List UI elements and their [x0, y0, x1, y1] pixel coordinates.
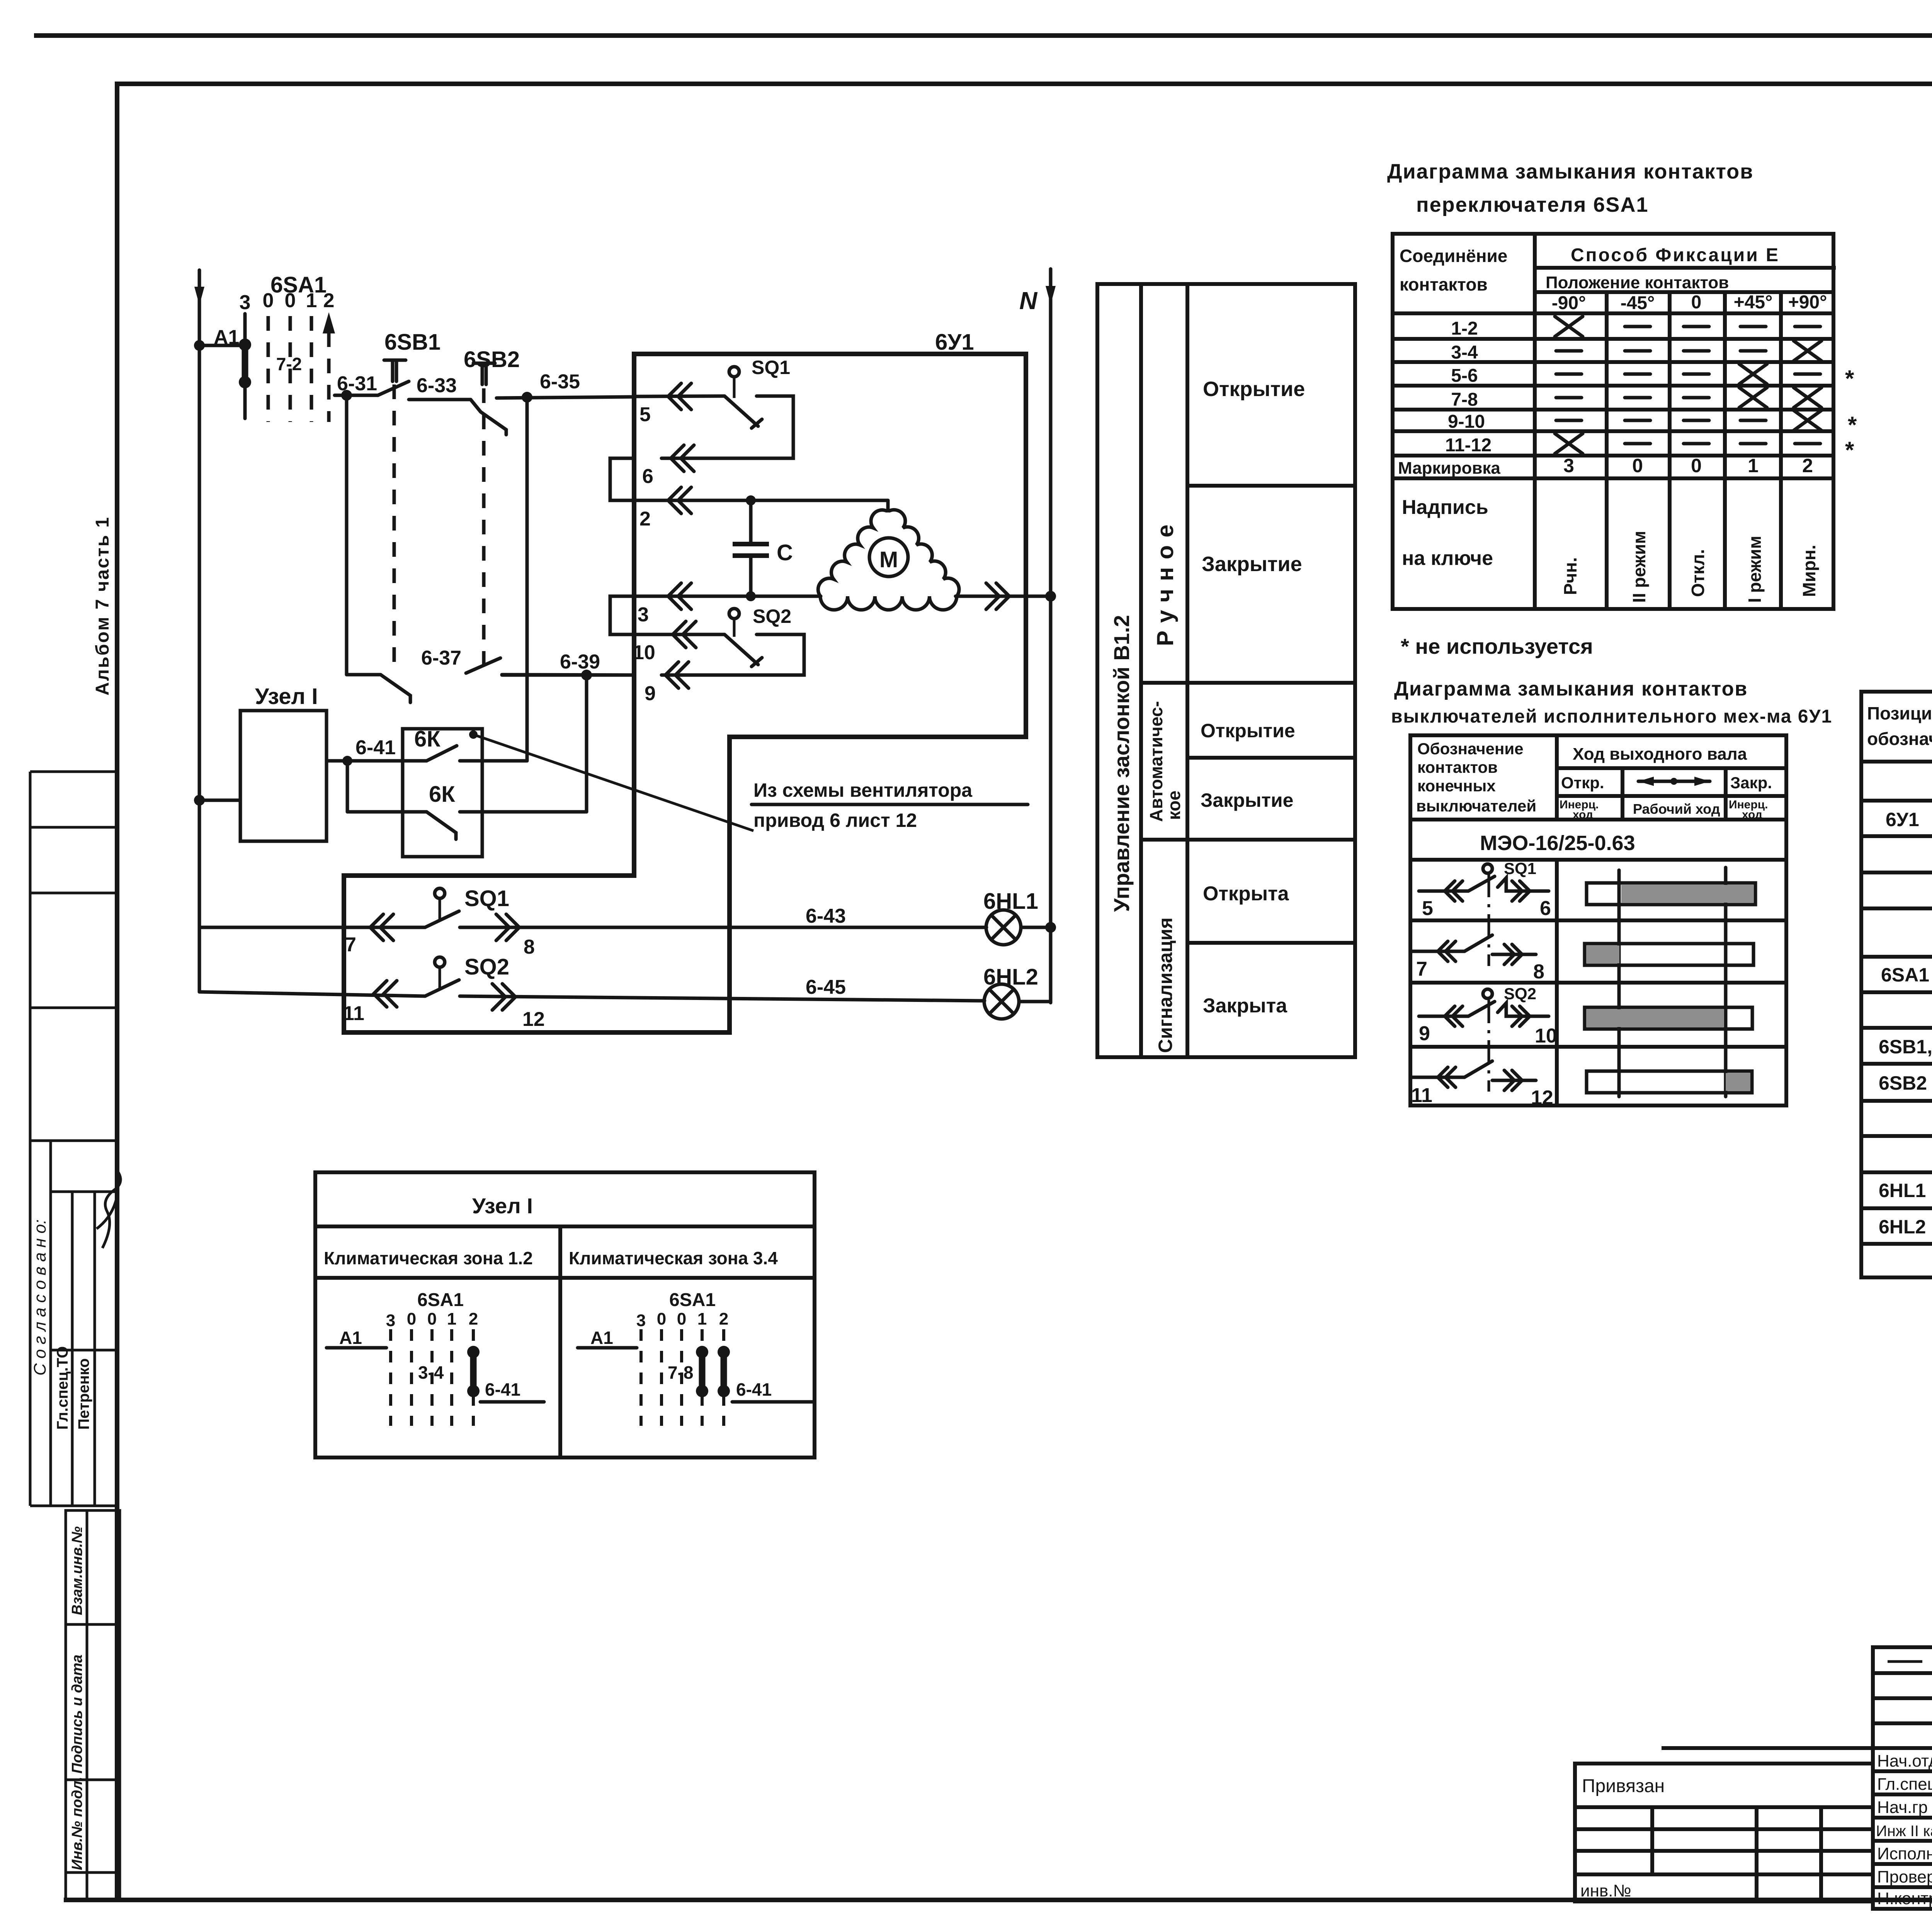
- svg-text:6: 6: [1540, 897, 1551, 920]
- symbol row 7-8: [1412, 935, 1544, 983]
- svg-text:Открытие: Открытие: [1201, 720, 1295, 742]
- marks row 1-2: [1555, 316, 1820, 337]
- svg-text:привод 6 лист 12: привод 6 лист 12: [753, 810, 917, 831]
- svg-text:0: 0: [1691, 455, 1702, 476]
- svg-text:2: 2: [639, 508, 651, 530]
- wire: loop 3 to 10: [610, 596, 634, 634]
- svg-text:0: 0: [677, 1310, 686, 1328]
- svg-text:С о г л а с о в а н о:: С о г л а с о в а н о:: [31, 1219, 49, 1376]
- svg-text:выключателей: выключателей: [1416, 797, 1536, 815]
- wire: link to fan note: [473, 735, 753, 831]
- svg-text:Петренко: Петренко: [75, 1358, 92, 1430]
- contact 6-37: [347, 647, 634, 702]
- lower stamp cells: [66, 1510, 120, 1900]
- svg-text:Узел I: Узел I: [255, 684, 318, 709]
- node 6-35: [522, 392, 532, 403]
- limit switch SQ1: [662, 357, 793, 458]
- svg-text:6: 6: [642, 465, 653, 488]
- svg-text:Узел I: Узел I: [472, 1194, 533, 1218]
- svg-text:1: 1: [1748, 455, 1759, 476]
- svg-text:Ручное: Ручное: [1152, 517, 1178, 646]
- svg-text:инв.№: инв.№: [1580, 1881, 1631, 1900]
- svg-text:6-35: 6-35: [540, 371, 580, 393]
- svg-text:ход: ход: [1742, 808, 1762, 821]
- table: limit switch travel diagram: [1410, 735, 1786, 1105]
- svg-text:6-41: 6-41: [736, 1379, 772, 1400]
- contact 6K upper: [347, 726, 527, 761]
- auxiliary contact SQ1 (signal): [425, 886, 986, 927]
- svg-text:контактов: контактов: [1400, 274, 1488, 294]
- wire: to Uzel I: [199, 799, 240, 802]
- svg-text:Соединёние: Соединёние: [1400, 246, 1507, 266]
- svg-text:Из схемы вентилятора: Из схемы вентилятора: [753, 779, 973, 801]
- svg-text:0: 0: [285, 289, 296, 312]
- svg-text:А1: А1: [590, 1328, 613, 1348]
- svg-text:Управление заслонкой В1.2: Управление заслонкой В1.2: [1109, 615, 1134, 912]
- svg-text:Подпись и дата: Подпись и дата: [69, 1655, 85, 1774]
- wire: lamp row 2 feed: [199, 992, 425, 996]
- svg-text:-45°: -45°: [1621, 293, 1655, 313]
- svg-text:5-6: 5-6: [1451, 366, 1478, 386]
- svg-text:Диаграмма замыкания контактов: Диаграмма замыкания контактов: [1394, 678, 1748, 700]
- svg-text:0: 0: [657, 1310, 666, 1328]
- symbol row SQ2 9-10: [1419, 985, 1557, 1092]
- svg-text:*: *: [1845, 366, 1854, 391]
- svg-text:12: 12: [1531, 1087, 1553, 1109]
- svg-text:Н.контр: Н.контр: [1877, 1889, 1932, 1908]
- svg-text:Ход выходного вала: Ход выходного вала: [1573, 745, 1747, 764]
- terminal chevron 11: [343, 981, 397, 1025]
- svg-text:Климатическая зона 1.2: Климатическая зона 1.2: [324, 1248, 533, 1268]
- svg-text:выключателей исполнительного: выключателей исполнительного мех-ма 6У1: [1391, 706, 1832, 727]
- svg-text:Обозначение: Обозначение: [1417, 740, 1524, 758]
- motor M winding: [818, 500, 959, 610]
- svg-text:Закрыта: Закрыта: [1203, 995, 1287, 1017]
- row labels contact pairs: [1445, 318, 1492, 456]
- svg-text:SQ1: SQ1: [464, 886, 509, 911]
- svg-text:кое: кое: [1164, 791, 1184, 820]
- svg-text:+45°: +45°: [1734, 292, 1773, 313]
- asterisks unused: [1845, 366, 1857, 463]
- wire: Uzel I to 6-41: [327, 759, 347, 763]
- bar row 11-12: [1587, 1071, 1752, 1093]
- line N riser: [1019, 269, 1056, 1003]
- svg-text:Закрытие: Закрытие: [1201, 789, 1293, 811]
- parts rows text: [1879, 772, 1932, 1238]
- svg-text:N: N: [1019, 287, 1038, 315]
- svg-text:6HL1: 6HL1: [1879, 1180, 1926, 1201]
- svg-text:12: 12: [522, 1008, 545, 1031]
- switch 6SA1: [239, 272, 335, 422]
- svg-text:обознач.: обознач.: [1867, 729, 1932, 749]
- svg-text:6SB2: 6SB2: [1879, 1072, 1927, 1094]
- symbol row 11-12: [1411, 1061, 1553, 1109]
- svg-text:9: 9: [1419, 1022, 1430, 1045]
- svg-text:Альбом 7 часть 1: Альбом 7 часть 1: [92, 516, 113, 696]
- limit switch SQ2: [662, 605, 804, 675]
- terminal chevron 9: [645, 662, 689, 705]
- svg-text:М: М: [879, 547, 898, 572]
- svg-text:8: 8: [524, 936, 535, 958]
- left stamp signature squiggle: [97, 1172, 121, 1248]
- svg-text:10: 10: [1535, 1025, 1557, 1047]
- svg-text:7-8: 7-8: [1451, 389, 1478, 410]
- box Uzel I: [240, 684, 327, 841]
- svg-text:Маркировка: Маркировка: [1398, 459, 1500, 478]
- svg-text:6-37: 6-37: [421, 647, 461, 669]
- terminal chevron 10: [633, 621, 724, 664]
- svg-text:10: 10: [633, 641, 655, 664]
- parts table headers: [1867, 703, 1932, 749]
- wire: phase A1 feeder vertical: [198, 270, 201, 992]
- marks row 7-8: [1556, 388, 1821, 408]
- terminal chevron 5: [634, 383, 724, 426]
- contact 6K lower: [347, 761, 587, 839]
- svg-text:11: 11: [343, 1002, 364, 1025]
- svg-text:2: 2: [1802, 455, 1813, 476]
- terminal chevron 7: [345, 914, 393, 956]
- svg-text:6К: 6К: [414, 726, 440, 752]
- svg-text:Открытие: Открытие: [1203, 378, 1305, 401]
- wire: motor output: [956, 583, 1051, 609]
- svg-text:3: 3: [240, 291, 251, 314]
- node A1: [194, 340, 205, 351]
- terminal chevron 3: [634, 583, 821, 626]
- arrow: incoming feed: [194, 287, 204, 305]
- svg-text:Исполн.: Исполн.: [1877, 1844, 1932, 1863]
- table: parts list: [1861, 692, 1932, 1277]
- svg-text:Гл.спец.ТО: Гл.спец.ТО: [54, 1346, 71, 1430]
- svg-text:6-41: 6-41: [355, 736, 396, 759]
- auxiliary contact SQ2 (signal): [425, 954, 985, 1001]
- svg-text:конечных: конечных: [1417, 777, 1496, 795]
- terminal chevron 6: [642, 445, 694, 488]
- svg-text:6У1: 6У1: [935, 330, 974, 355]
- svg-text:Гл.спец: Гл.спец: [1877, 1775, 1932, 1794]
- table: damper control modes: [1097, 284, 1355, 1057]
- svg-text:0: 0: [407, 1310, 416, 1328]
- svg-text:6SB1,: 6SB1,: [1879, 1036, 1932, 1058]
- svg-text:Рабочий ход: Рабочий ход: [1633, 801, 1720, 817]
- terminal chevron 8: [496, 914, 535, 958]
- svg-text:8: 8: [1533, 961, 1544, 983]
- mini switch 6SA1 zone 3.4: [578, 1290, 815, 1426]
- svg-text:6SA1: 6SA1: [270, 272, 327, 298]
- node 6-31: [341, 390, 352, 401]
- svg-text:0: 0: [427, 1310, 437, 1328]
- svg-text:Инв.№ подл.: Инв.№ подл.: [69, 1777, 85, 1870]
- svg-text:11: 11: [1411, 1084, 1432, 1107]
- wire: loop 6 to 2: [610, 458, 634, 500]
- svg-text:2: 2: [323, 289, 335, 312]
- wire: 6-31 drop to 6-37: [345, 395, 349, 675]
- marks row 9-10: [1556, 410, 1821, 430]
- node left drop junction: [194, 795, 205, 806]
- svg-text:6-33: 6-33: [417, 374, 457, 397]
- svg-text:SQ2: SQ2: [753, 605, 791, 627]
- svg-text:Рчн.: Рчн.: [1560, 557, 1580, 595]
- actuator box 6U1 outline: [344, 354, 1026, 1032]
- svg-text:5: 5: [639, 403, 651, 426]
- svg-text:3: 3: [386, 1311, 395, 1330]
- svg-text:6-41: 6-41: [485, 1379, 520, 1400]
- bar row 9-10: [1585, 1007, 1752, 1029]
- wire: 6-35 drop to interlock: [526, 397, 529, 761]
- svg-text:SQ2: SQ2: [1504, 985, 1536, 1003]
- svg-text:Инж II кат: Инж II кат: [1876, 1823, 1932, 1840]
- relay box 6K: [403, 729, 482, 857]
- wire: lamp row 1 feed: [199, 926, 425, 929]
- left approval stamp column: [30, 772, 117, 1506]
- svg-text:C: C: [777, 540, 793, 565]
- capacitor C: [733, 495, 793, 601]
- bar row 5-6: [1587, 883, 1755, 905]
- svg-text:6К: 6К: [429, 782, 455, 807]
- svg-text:Позиция: Позиция: [1867, 703, 1932, 723]
- note: from fan circuit: [752, 779, 1028, 831]
- svg-text:0: 0: [1691, 292, 1702, 313]
- svg-text:Нач.гр: Нач.гр: [1877, 1798, 1928, 1817]
- pushbutton 6SB1 (NC): [378, 330, 440, 672]
- wire: 6-39 drop: [585, 675, 588, 812]
- node link fan: [469, 730, 478, 739]
- terminal chevron 12: [492, 984, 545, 1031]
- svg-text:1: 1: [306, 289, 317, 312]
- svg-text:+90°: +90°: [1788, 292, 1827, 313]
- wire: row 9 out to 6-39: [502, 673, 634, 677]
- svg-text:6SB1: 6SB1: [384, 330, 440, 355]
- svg-text:Надпись: Надпись: [1402, 496, 1488, 519]
- svg-text:7: 7: [345, 934, 356, 956]
- svg-text:9: 9: [645, 682, 656, 705]
- table: signatures: [1873, 1647, 1932, 1909]
- svg-text:3: 3: [1563, 455, 1574, 476]
- extension line: [1662, 1746, 1873, 1750]
- svg-text:0: 0: [1632, 455, 1643, 476]
- node lamp1-N: [1045, 922, 1056, 933]
- svg-text:6SA1: 6SA1: [417, 1290, 464, 1310]
- marks row 5-6: [1556, 364, 1820, 384]
- svg-text:SQ1: SQ1: [1504, 859, 1536, 878]
- svg-text:ход: ход: [1573, 808, 1593, 821]
- svg-text:3: 3: [638, 604, 649, 626]
- key labels rotated: [1560, 531, 1819, 603]
- svg-text:6SA1: 6SA1: [1881, 964, 1929, 986]
- node 6-39: [581, 670, 592, 680]
- svg-text:3-4: 3-4: [418, 1362, 444, 1383]
- svg-text:Закр.: Закр.: [1730, 774, 1772, 792]
- svg-text:на ключе: на ключе: [1402, 547, 1493, 570]
- svg-text:Нач.отд: Нач.отд: [1877, 1752, 1932, 1770]
- svg-text:6У1: 6У1: [1886, 809, 1919, 830]
- svg-text:5: 5: [1422, 897, 1433, 920]
- svg-text:1-2: 1-2: [1451, 318, 1478, 339]
- signature rows text: [1876, 1750, 1932, 1908]
- svg-text:9-10: 9-10: [1448, 412, 1485, 432]
- svg-text:Диаграмма замыкания контактов: Диаграмма замыкания контактов: [1387, 160, 1753, 183]
- svg-text:7-2: 7-2: [276, 354, 302, 374]
- svg-text:2: 2: [719, 1310, 728, 1328]
- terminal chevron 2: [634, 487, 888, 530]
- svg-text:Провер: Провер: [1877, 1867, 1932, 1886]
- svg-text:* не используется: * не используется: [1401, 634, 1593, 658]
- svg-text:11-12: 11-12: [1445, 435, 1492, 456]
- travel boundary lines: [1619, 867, 1726, 1097]
- svg-text:6HL2: 6HL2: [1879, 1216, 1926, 1238]
- svg-text:Сигнализация: Сигнализация: [1155, 917, 1176, 1053]
- marks row 3-4: [1556, 341, 1821, 361]
- svg-text:3: 3: [636, 1311, 646, 1330]
- svg-text:Автоматичес-: Автоматичес-: [1146, 701, 1166, 822]
- node motor-N: [1045, 591, 1056, 602]
- svg-text:Положение контактов: Положение контактов: [1546, 273, 1729, 292]
- svg-text:Откл.: Откл.: [1688, 549, 1708, 597]
- svg-text:Мирн.: Мирн.: [1799, 545, 1819, 597]
- node 6-41: [342, 756, 352, 766]
- stray dash mark: [1888, 1660, 1922, 1663]
- svg-text:SQ2: SQ2: [464, 954, 509, 980]
- svg-text:Взам.инв.№: Взам.инв.№: [69, 1526, 85, 1615]
- svg-text:контактов: контактов: [1417, 758, 1498, 776]
- svg-text:Климатическая зона 3.4: Климатическая зона 3.4: [569, 1248, 778, 1268]
- svg-text:Открыта: Открыта: [1203, 883, 1289, 905]
- svg-text:7-8: 7-8: [668, 1362, 693, 1383]
- svg-text:*: *: [1848, 412, 1857, 438]
- svg-text:6-43: 6-43: [806, 905, 846, 927]
- table: 6SA1 contact diagram: [1393, 234, 1836, 609]
- svg-text:6SB2: 6SB2: [464, 347, 520, 372]
- lamp 6HL2: [983, 964, 1051, 1019]
- svg-text:6-31: 6-31: [337, 372, 377, 395]
- svg-text:А1: А1: [339, 1328, 362, 1348]
- svg-text:*: *: [1845, 437, 1854, 463]
- svg-text:1: 1: [447, 1310, 456, 1328]
- svg-text:6-45: 6-45: [806, 976, 846, 998]
- svg-text:2: 2: [469, 1310, 478, 1328]
- svg-text:переключателя 6SA1: переключателя 6SA1: [1416, 193, 1648, 216]
- svg-text:-90°: -90°: [1552, 293, 1586, 313]
- svg-text:II режим: II режим: [1629, 531, 1649, 603]
- svg-text:Закрытие: Закрытие: [1202, 553, 1302, 576]
- svg-text:0: 0: [263, 289, 274, 312]
- svg-text:1: 1: [697, 1310, 707, 1328]
- svg-text:7: 7: [1416, 958, 1427, 980]
- marking row values: [1563, 455, 1813, 476]
- header: angles: [1552, 292, 1827, 313]
- svg-text:6SA1: 6SA1: [669, 1290, 716, 1310]
- symbol row SQ1 5-6: [1419, 859, 1551, 966]
- pushbutton 6SB2 (NO): [464, 347, 634, 672]
- header: designation of contacts: [1416, 740, 1536, 815]
- wire: 6-31: [335, 394, 378, 397]
- svg-text:I режим: I режим: [1745, 536, 1765, 603]
- table: binding (Privyazan): [1575, 1764, 1873, 1901]
- bar row 7-8: [1585, 944, 1753, 965]
- svg-text:Способ Фиксации Е: Способ Фиксации Е: [1571, 245, 1780, 265]
- svg-text:6-39: 6-39: [560, 651, 600, 673]
- marks row 11-12: [1555, 434, 1820, 454]
- svg-text:Откр.: Откр.: [1561, 774, 1604, 792]
- mini switch 6SA1 zone 1.2: [327, 1290, 544, 1426]
- svg-text:3-4: 3-4: [1451, 342, 1478, 363]
- svg-text:SQ1: SQ1: [752, 357, 790, 378]
- lamp 6HL1: [983, 889, 1051, 945]
- svg-text:МЭО-16/25-0.63: МЭО-16/25-0.63: [1480, 832, 1635, 855]
- table: Uzel I variants: [315, 1172, 815, 1458]
- wire: A1 to switch: [199, 344, 245, 347]
- svg-text:Привязан: Привязан: [1582, 1776, 1665, 1796]
